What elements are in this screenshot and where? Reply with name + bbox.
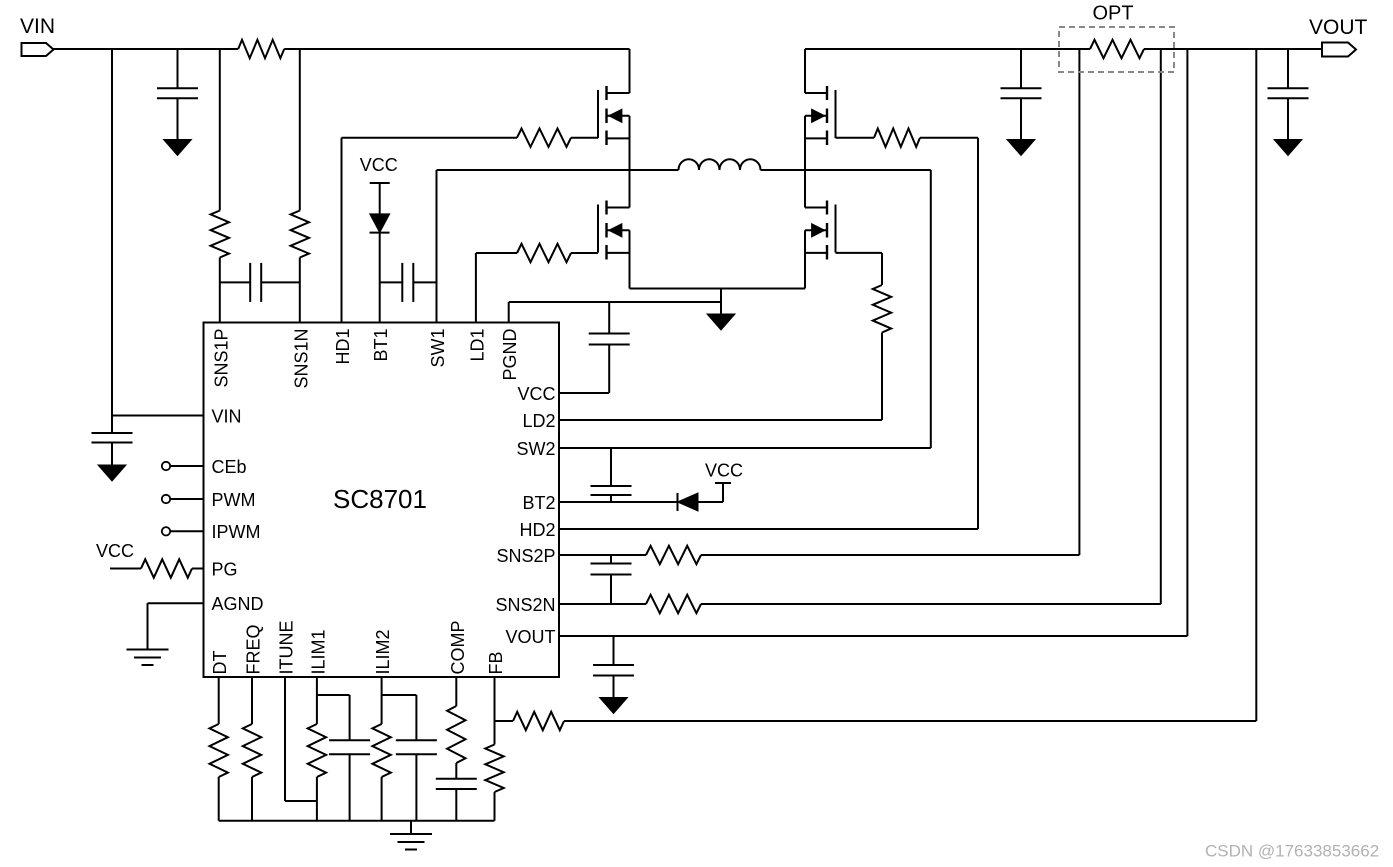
ground (input cap) <box>164 140 192 156</box>
svg-text:VOUT: VOUT <box>1309 16 1368 39</box>
wire (LD2 to Q4 gate) <box>836 252 883 254</box>
svg-text:CSDN @17633853662: CSDN @17633853662 <box>1205 842 1379 861</box>
svg-text:ITUNE: ITUNE <box>277 621 297 675</box>
svg-text:VIN: VIN <box>212 406 242 426</box>
svg-text:HD2: HD2 <box>519 520 555 540</box>
wire (Q3 drain riser) <box>804 49 806 93</box>
wire (VCC pin) <box>559 392 609 394</box>
wire (IPWM pin) <box>162 527 170 535</box>
capacitor (input bulk C) <box>177 49 179 88</box>
ground (VIN pin cap) <box>98 465 126 481</box>
svg-text:PG: PG <box>212 559 238 579</box>
capacitor (ILIM1 filter C) <box>329 739 370 741</box>
wire (HD2 to Q3 gate) <box>836 137 875 139</box>
wire (VIN pin branch) <box>111 49 113 416</box>
svg-text:VCC: VCC <box>96 541 134 561</box>
ground (AGND earth) <box>127 649 169 651</box>
svg-text:OPT: OPT <box>1092 3 1133 25</box>
transistor Q2 (buck low-side NMOS) <box>605 201 607 215</box>
resistor (FB lower divider R) <box>485 745 503 793</box>
resistor (COMP compensation R) <box>447 706 465 763</box>
svg-text:SNS2N: SNS2N <box>495 595 555 615</box>
wire (DT branch) <box>218 677 220 724</box>
ground (VOUT pin cap) <box>600 698 628 714</box>
wire (SNS2P net) <box>559 554 646 556</box>
wire (FREQ branch) <box>251 677 253 724</box>
capacitor (VOUT pin C) <box>613 636 615 665</box>
wire (FB to VOUT) <box>495 720 514 722</box>
wire (left switch node) <box>629 138 631 207</box>
wire (SW1 riser) <box>436 170 438 323</box>
node VCC (BT2 supply stub) <box>722 483 724 502</box>
wire (right switch node) <box>804 138 806 207</box>
wire (PGND riser) <box>508 302 510 323</box>
svg-text:IPWM: IPWM <box>212 522 261 542</box>
inductor L1 <box>630 169 679 171</box>
wire (SNS2N net) <box>559 603 646 605</box>
transistor Q1 (buck high-side NMOS) <box>605 86 607 100</box>
capacitor (ILIM2 filter C) <box>396 739 437 741</box>
node VIN (input terminal) <box>22 43 54 56</box>
resistor (Q1 gate R) <box>517 129 571 147</box>
svg-text:DT: DT <box>210 651 230 675</box>
wire (AGND pin) <box>148 602 204 604</box>
capacitor (BT2 bootstrap C) <box>610 448 612 486</box>
resistor (FREQ set R) <box>243 724 261 777</box>
node VOUT (output terminal) <box>1322 43 1356 57</box>
capacitor (COMP compensation C) <box>436 778 477 780</box>
capacitor (VOUT bulk C) <box>1287 49 1289 88</box>
svg-text:LD1: LD1 <box>467 329 487 362</box>
svg-text:SNS2P: SNS2P <box>496 546 555 566</box>
svg-text:FB: FB <box>486 651 506 674</box>
svg-text:SW1: SW1 <box>428 329 448 368</box>
wire (VOUT pin net) <box>559 635 1187 637</box>
wire (analog bus) <box>219 820 495 822</box>
svg-text:LD2: LD2 <box>522 411 555 431</box>
resistor (SNS1N filter) <box>291 211 309 258</box>
resistor (PG pull-up R) <box>141 559 192 577</box>
svg-text:VOUT: VOUT <box>505 627 555 647</box>
wire (SNS1N riser) <box>299 49 301 211</box>
resistor (SNS2P filter) <box>646 546 701 564</box>
capacitor (pre-OPT output C) <box>1020 49 1022 88</box>
svg-text:AGND: AGND <box>212 594 264 614</box>
resistor (OPT output sense) <box>1090 40 1144 58</box>
capacitor (SNS1 filter C) <box>220 281 250 283</box>
resistor (SNS2N filter) <box>646 595 701 613</box>
wire (Q4 source to gnd bar) <box>804 253 806 289</box>
wire (ILIM1 branch) <box>316 677 318 724</box>
wire (HD1 to Q1 gate) <box>341 138 343 323</box>
wire (ILIM2 branch) <box>381 677 383 724</box>
svg-text:ILIM2: ILIM2 <box>373 629 393 674</box>
wire (VOUT rail) <box>805 48 1090 50</box>
wire (SNS1P riser) <box>219 49 221 211</box>
svg-text:CEb: CEb <box>212 457 247 477</box>
svg-text:VIN: VIN <box>20 15 55 38</box>
wire (PWM pin) <box>162 495 170 503</box>
wire (FB branch) <box>494 677 496 745</box>
svg-text:VCC: VCC <box>517 384 555 404</box>
ground (pre-OPT output cap) <box>1007 140 1035 156</box>
wire (ITUNE branch) <box>284 677 286 801</box>
svg-text:VCC: VCC <box>360 155 398 175</box>
resistor (DT set R) <box>210 724 228 777</box>
svg-text:COMP: COMP <box>448 621 468 675</box>
capacitor (SNS2 filter C) <box>610 555 612 564</box>
svg-text:SNS1P: SNS1P <box>211 329 231 388</box>
svg-text:SW2: SW2 <box>516 439 555 459</box>
svg-text:SNS1N: SNS1N <box>291 329 311 389</box>
capacitor (VIN pin decoupling) <box>111 416 113 434</box>
transistor Q4 (boost low-side NMOS) <box>826 201 828 215</box>
resistor (Q4 gate R) <box>873 285 891 333</box>
svg-text:HD1: HD1 <box>333 329 353 365</box>
wire (BT2 net) <box>559 501 678 503</box>
diode (BT2 bootstrap from VCC) <box>677 493 679 511</box>
ground (analog earth) <box>390 833 432 835</box>
node OPT (optional sense resistor box) <box>1059 27 1174 72</box>
resistor (VIN rail sense R1) <box>238 40 284 58</box>
transistor Q3 (boost high-side NMOS) <box>826 86 828 100</box>
wire (Q1 drain riser) <box>629 49 631 93</box>
wire (COMP branch) <box>455 677 457 706</box>
capacitor (VCC decoupling) <box>608 302 610 334</box>
svg-text:ILIM1: ILIM1 <box>308 629 328 674</box>
resistor (ILIM2 set R) <box>372 724 390 777</box>
ground (VOUT bulk cap) <box>1274 140 1302 156</box>
resistor (ILIM1 set R) <box>308 724 326 777</box>
svg-text:FREQ: FREQ <box>244 624 264 674</box>
diode (BT1 bootstrap from VCC) <box>370 232 390 234</box>
wire (LD1 to Q2 gate) <box>475 253 477 323</box>
wire (BT1 riser) <box>379 233 381 323</box>
svg-text:BT1: BT1 <box>371 329 391 362</box>
resistor (SNS1P filter) <box>211 211 229 258</box>
wire (SW2 net) <box>805 169 931 171</box>
op-amp U1 (SC8701 controller IC outline) <box>204 323 560 678</box>
resistor (Q3 gate R) <box>874 129 920 147</box>
resistor (FB upper divider R) <box>513 712 564 730</box>
svg-text:SC8701: SC8701 <box>333 484 427 514</box>
resistor (Q2 gate R) <box>517 244 571 262</box>
wire (VIN rail) <box>54 48 239 50</box>
svg-text:BT2: BT2 <box>522 493 555 513</box>
node VCC (BT1 supply stub) <box>370 182 390 184</box>
capacitor (BT1 bootstrap C) <box>380 281 403 283</box>
svg-text:PGND: PGND <box>500 329 520 381</box>
svg-text:VCC: VCC <box>705 461 743 481</box>
svg-text:PWM: PWM <box>212 490 256 510</box>
wire (Q2 source to gnd bar) <box>629 253 631 289</box>
ground (power stage) <box>720 289 722 315</box>
wire (CEb pin) <box>162 462 170 470</box>
